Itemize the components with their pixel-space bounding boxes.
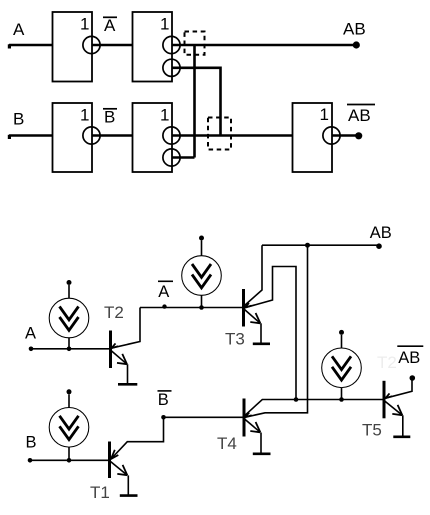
- junction dot B-bar line: [161, 415, 166, 420]
- svg-text:T1: T1: [90, 483, 110, 502]
- transistor T3: [225, 245, 296, 399]
- current source I3 (input B): [49, 389, 89, 462]
- T4 emitter: [245, 419, 260, 432]
- junction with current source I2: [199, 305, 204, 310]
- T1 emitter: [111, 462, 128, 476]
- inversion bubble gate4 output 1: [163, 127, 180, 144]
- inverter gate 5 (AB-bar) box: [293, 103, 333, 172]
- transistor T5: [362, 346, 423, 439]
- wire AB line (bottom): [262, 244, 379, 246]
- dashed wired-junction box 1: [185, 32, 205, 55]
- input terminal A: [29, 347, 34, 352]
- wire AB output line: [172, 44, 354, 47]
- wire gate2 second output down: [172, 68, 221, 136]
- svg-text:B: B: [158, 391, 169, 409]
- inversion bubble gate2 output 1: [163, 36, 180, 53]
- gate 2 (A-bar buffer, two outputs) box: [133, 12, 173, 82]
- inversion bubble gate1: [83, 36, 100, 53]
- T5 collector wire up to AB-bar terminal: [385, 381, 412, 399]
- svg-text:AB: AB: [398, 349, 420, 367]
- inversion bubble gate4 output 2: [163, 149, 180, 166]
- input terminal B: [28, 458, 33, 463]
- svg-text:T5: T5: [362, 421, 382, 440]
- wire B input: [9, 134, 53, 137]
- svg-text:B: B: [13, 110, 24, 129]
- wire B-bar node line: [164, 416, 245, 418]
- current source I2 (A-bar node): [182, 236, 222, 308]
- transistor T2: [104, 303, 140, 384]
- inverter gate 1 (A) box: [53, 12, 93, 82]
- junction dot AB line: [305, 243, 310, 248]
- svg-text:1: 1: [80, 106, 89, 125]
- junction dot on A-bar line: [162, 304, 166, 308]
- T3 emitter: [245, 310, 261, 324]
- svg-text:AB: AB: [370, 224, 392, 242]
- T2 emitter: [111, 351, 127, 365]
- inversion bubble gate3: [83, 127, 100, 144]
- terminal AB-bar (top): [355, 132, 362, 139]
- wire wired-AND vertical (to AB line): [193, 45, 196, 158]
- transistor T1: [90, 417, 164, 502]
- dashed wired-junction box 2: [208, 118, 231, 150]
- terminal AB (bottom): [376, 243, 382, 249]
- wire gate4 second output to wired vertical: [172, 156, 195, 159]
- T3 ground: [260, 323, 262, 342]
- svg-text:B: B: [104, 108, 115, 127]
- svg-text:1: 1: [160, 15, 169, 34]
- inversion bubble gate2 output 2: [163, 59, 180, 76]
- T1 collector wire up to B-bar node: [111, 417, 164, 459]
- wire B input (bottom): [30, 459, 110, 461]
- svg-text:A: A: [104, 16, 116, 35]
- current source I1 (input A): [49, 280, 89, 351]
- wire A input (bottom): [31, 348, 111, 350]
- T5 emitter: [385, 401, 402, 415]
- svg-text:T2: T2: [377, 353, 397, 372]
- svg-text:1: 1: [320, 105, 329, 124]
- wire A-bar node line: [140, 307, 244, 309]
- wire B-bar: [92, 134, 133, 137]
- wire T4 second emitter to AB line: [245, 245, 308, 417]
- wire A input: [9, 44, 53, 47]
- T3 second emitter wire to T4 collector node: [245, 267, 297, 400]
- svg-text:AB: AB: [343, 20, 366, 39]
- junction dot current source I4 on T4 collector line: [339, 397, 344, 402]
- inverter gate 3 (B) box: [53, 103, 93, 172]
- svg-text:T4: T4: [217, 434, 237, 453]
- T4 collector wire to T5 base: [245, 400, 384, 416]
- svg-text:A: A: [25, 325, 36, 343]
- T2 collector wire up to A-bar node: [111, 308, 140, 349]
- gate 4 (B-bar buffer, two outputs) box: [133, 103, 173, 172]
- T3 collector wire up to AB line: [245, 245, 263, 305]
- T4 ground: [260, 433, 262, 453]
- transistor T4: [217, 399, 384, 454]
- svg-text:A: A: [158, 283, 169, 301]
- wire A-bar: [92, 44, 133, 47]
- junction dot T3 second emitter on T4 collector line: [294, 397, 299, 402]
- inversion bubble gate5: [323, 127, 340, 144]
- wire AB-bar output: [332, 134, 356, 137]
- svg-text:1: 1: [160, 106, 169, 125]
- svg-text:B: B: [26, 434, 37, 452]
- T2 ground: [127, 364, 129, 383]
- current source I4 (output stage): [322, 330, 362, 400]
- svg-text:T2: T2: [104, 303, 124, 322]
- svg-text:1: 1: [80, 15, 89, 34]
- terminal AB-bar (bottom): [410, 375, 416, 381]
- T1 ground: [127, 475, 129, 494]
- T5 ground: [402, 415, 404, 436]
- svg-text:T3: T3: [225, 329, 245, 348]
- terminal AB (top): [353, 41, 360, 48]
- svg-text:A: A: [13, 20, 25, 39]
- svg-text:AB: AB: [348, 106, 371, 125]
- wire gate4 output to gate5: [172, 134, 293, 137]
